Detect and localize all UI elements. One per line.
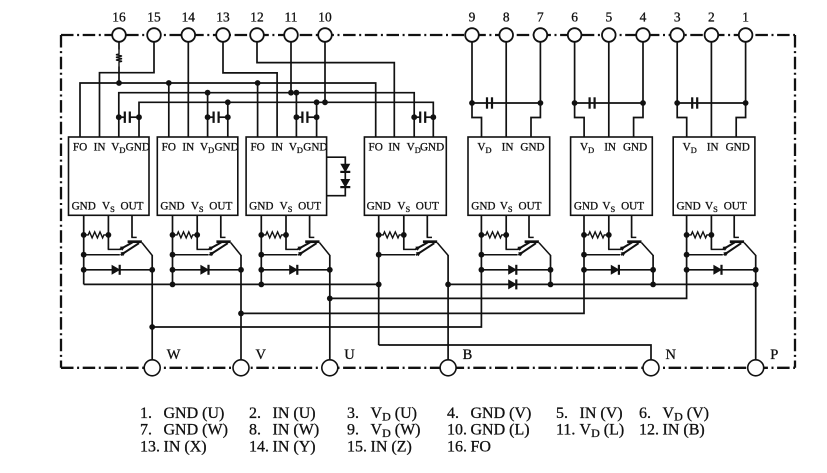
svg-text:7: 7 — [537, 9, 544, 24]
svg-text:OUT: OUT — [209, 200, 232, 212]
svg-text:IN (V): IN (V) — [580, 405, 623, 422]
svg-text:OUT: OUT — [298, 200, 321, 212]
svg-text:IN: IN — [604, 142, 616, 154]
svg-text:IN (U): IN (U) — [273, 405, 316, 422]
svg-text:IN: IN — [502, 142, 514, 154]
svg-text:12: 12 — [250, 9, 263, 24]
svg-text:OUT: OUT — [621, 200, 644, 212]
svg-text:GND: GND — [520, 142, 544, 154]
svg-text:IN (W): IN (W) — [273, 422, 320, 439]
svg-text:GND: GND — [303, 142, 327, 154]
svg-text:4.: 4. — [447, 405, 459, 422]
svg-text:6.: 6. — [639, 405, 651, 422]
svg-text:GND: GND — [420, 142, 444, 154]
svg-text:13.: 13. — [140, 438, 160, 455]
svg-text:8: 8 — [503, 9, 510, 24]
svg-text:GND (V): GND (V) — [471, 405, 532, 422]
svg-text:N: N — [666, 347, 677, 363]
svg-text:IN: IN — [707, 142, 719, 154]
svg-text:8.: 8. — [249, 422, 261, 439]
svg-text:GND (U): GND (U) — [164, 405, 225, 422]
svg-text:IN (Y): IN (Y) — [273, 438, 316, 455]
svg-text:B: B — [463, 347, 473, 363]
svg-text:FO: FO — [73, 142, 87, 154]
svg-text:1.: 1. — [140, 405, 152, 422]
svg-text:U: U — [344, 347, 355, 363]
svg-text:FO: FO — [471, 438, 491, 455]
svg-text:13: 13 — [216, 9, 230, 24]
svg-text:OUT: OUT — [416, 200, 439, 212]
svg-text:14.: 14. — [249, 438, 269, 455]
svg-text:OUT: OUT — [724, 200, 747, 212]
svg-text:7.: 7. — [140, 422, 152, 439]
svg-text:GND: GND — [471, 200, 495, 212]
svg-text:IN (B): IN (B) — [663, 422, 705, 439]
svg-text:3: 3 — [674, 9, 681, 24]
svg-text:15.: 15. — [347, 438, 367, 455]
svg-text:9: 9 — [469, 9, 476, 24]
svg-text:GND: GND — [676, 200, 700, 212]
svg-text:V: V — [256, 347, 267, 363]
svg-text:10: 10 — [318, 9, 332, 24]
svg-text:GND: GND — [214, 142, 238, 154]
svg-text:IN: IN — [388, 142, 400, 154]
svg-text:VD (L): VD (L) — [580, 422, 625, 441]
svg-text:2: 2 — [708, 9, 715, 24]
svg-text:16.: 16. — [447, 438, 467, 455]
svg-text:11.: 11. — [556, 422, 575, 439]
svg-text:GND: GND — [72, 200, 96, 212]
svg-text:15: 15 — [147, 9, 161, 24]
svg-text:1: 1 — [742, 9, 749, 24]
svg-text:4: 4 — [640, 9, 647, 24]
svg-text:10.: 10. — [447, 422, 467, 439]
svg-text:OUT: OUT — [121, 200, 144, 212]
svg-text:VD (W): VD (W) — [371, 422, 421, 441]
svg-text:6: 6 — [571, 9, 578, 24]
svg-text:9.: 9. — [347, 422, 359, 439]
svg-text:FO: FO — [369, 142, 383, 154]
svg-text:FO: FO — [162, 142, 176, 154]
svg-text:GND: GND — [160, 200, 184, 212]
svg-text:GND: GND — [726, 142, 750, 154]
svg-text:14: 14 — [182, 9, 196, 24]
svg-text:GND: GND — [249, 200, 273, 212]
svg-text:IN (Z): IN (Z) — [371, 438, 412, 455]
svg-text:IN: IN — [271, 142, 283, 154]
svg-text:3.: 3. — [347, 405, 359, 422]
svg-text:IN: IN — [182, 142, 194, 154]
svg-text:12.: 12. — [639, 422, 659, 439]
svg-text:5.: 5. — [556, 405, 568, 422]
svg-text:16: 16 — [112, 9, 126, 24]
svg-text:GND: GND — [126, 142, 150, 154]
svg-text:IN: IN — [94, 142, 106, 154]
svg-text:5: 5 — [605, 9, 612, 24]
svg-text:IN (X): IN (X) — [164, 438, 207, 455]
svg-text:11: 11 — [285, 9, 298, 24]
svg-text:GND (W): GND (W) — [164, 422, 228, 439]
svg-text:P: P — [770, 347, 778, 363]
svg-text:OUT: OUT — [519, 200, 542, 212]
svg-text:GND (L): GND (L) — [471, 422, 530, 439]
svg-text:FO: FO — [250, 142, 264, 154]
svg-text:GND: GND — [623, 142, 647, 154]
svg-text:GND: GND — [574, 200, 598, 212]
svg-text:GND: GND — [367, 200, 391, 212]
svg-text:2.: 2. — [249, 405, 261, 422]
svg-text:W: W — [167, 347, 181, 363]
